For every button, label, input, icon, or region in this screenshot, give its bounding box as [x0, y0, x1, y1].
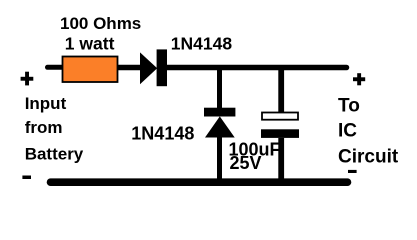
diode D1 cathode bar [157, 49, 167, 86]
svg-text:To: To [338, 95, 360, 116]
wire: shunt diode branch upper segment [217, 68, 222, 111]
diode D2 1N4148 shunt cathode bar [204, 108, 235, 117]
node: output - terminal [348, 170, 357, 173]
svg-text:Input: Input [25, 94, 67, 113]
svg-text:1 watt: 1 watt [65, 33, 115, 53]
node: input - terminal [22, 176, 31, 180]
wire: shunt diode branch lower segment [217, 136, 222, 183]
wire: capacitor branch lower segment [278, 138, 284, 183]
wire: top positive rail to output + [166, 65, 347, 71]
wire: bottom negative rail [51, 178, 348, 186]
diode D1 1N4148 series (triangle anode) [140, 52, 157, 84]
resistor R1 100 Ohms 1 watt (orange body) [63, 57, 118, 83]
capacitor C1 positive plate (outlined) [262, 113, 298, 120]
svg-text:1N4148: 1N4148 [131, 123, 194, 143]
wire: input stub from + terminal to resistor [48, 65, 64, 70]
diode D2 1N4148 shunt (triangle pointing up) [205, 116, 235, 137]
svg-text:from: from [25, 118, 63, 137]
svg-text:1N4148: 1N4148 [171, 33, 233, 53]
wire: capacitor branch upper segment [278, 68, 284, 114]
node: input + terminal [21, 72, 34, 86]
svg-text:100 Ohms: 100 Ohms [60, 14, 141, 33]
capacitor C1 negative plate (solid) [261, 129, 299, 138]
wire: resistor to diode D1 [118, 65, 142, 71]
svg-text:IC: IC [338, 120, 357, 141]
svg-text:25V: 25V [230, 153, 262, 173]
svg-text:Battery: Battery [25, 145, 84, 164]
node: output + terminal [353, 73, 365, 85]
svg-text:Circuit: Circuit [338, 146, 399, 167]
